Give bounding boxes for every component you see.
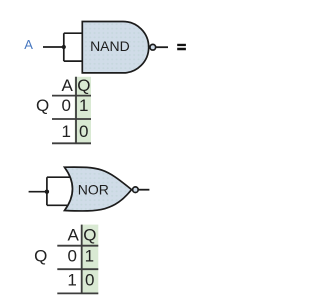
svg-text:1: 1 bbox=[61, 122, 70, 141]
svg-text:0: 0 bbox=[61, 96, 70, 115]
svg-text:A: A bbox=[62, 76, 74, 95]
svg-text:Q: Q bbox=[77, 76, 90, 95]
svg-text:0: 0 bbox=[67, 246, 76, 265]
svg-text:1: 1 bbox=[85, 246, 94, 265]
svg-text:NOR: NOR bbox=[78, 182, 109, 198]
svg-text:A: A bbox=[68, 226, 80, 245]
svg-text:1: 1 bbox=[79, 96, 88, 115]
svg-text:A: A bbox=[24, 37, 33, 52]
svg-text:Q: Q bbox=[34, 246, 47, 265]
svg-text:0: 0 bbox=[79, 122, 88, 141]
svg-text:Q: Q bbox=[83, 226, 96, 245]
svg-text:0: 0 bbox=[85, 271, 94, 290]
svg-text:NAND: NAND bbox=[90, 38, 130, 54]
svg-text:1: 1 bbox=[67, 271, 76, 290]
svg-text:Q: Q bbox=[36, 96, 49, 115]
